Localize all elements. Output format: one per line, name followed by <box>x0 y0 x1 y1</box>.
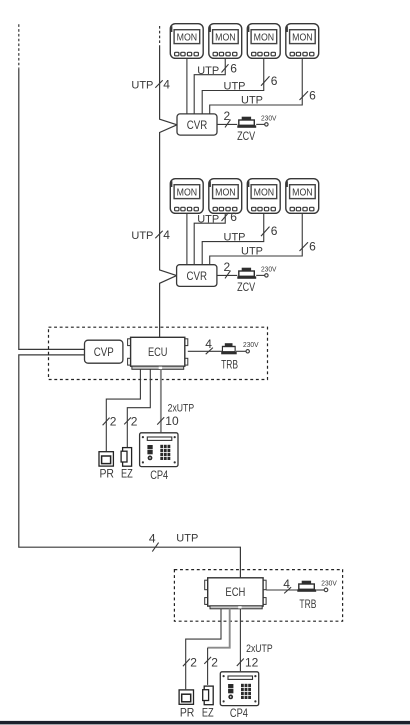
label 6 run3 s1 with slash <box>300 89 317 103</box>
label PR2 <box>180 705 195 719</box>
label 230V ECU <box>243 340 259 349</box>
svg-text:4: 4 <box>205 337 212 351</box>
svg-text:TRB: TRB <box>221 357 238 371</box>
svg-text:UTP: UTP <box>131 80 153 92</box>
label EZ1 <box>121 467 133 481</box>
label UTP run1 s1 <box>197 65 219 77</box>
label 6 run3 s2 with slash <box>300 240 317 254</box>
label UTP 4 riser s2 with slash <box>131 228 170 242</box>
svg-text:CVR: CVR <box>187 118 208 132</box>
svg-text:CP4: CP4 <box>150 468 168 482</box>
wire: ECH to EZ2 with label 2 and slash <box>204 609 229 685</box>
svg-text:2: 2 <box>224 109 231 123</box>
svg-text:EZ: EZ <box>202 705 214 719</box>
wire: MON6 to CVR U2 <box>194 214 225 265</box>
CVP U3 <box>85 340 123 363</box>
svg-text:4: 4 <box>163 77 170 91</box>
wire: ECU to CP4 panel (2xUTP) with labels <box>157 369 194 432</box>
door lock EZ2 <box>203 686 214 705</box>
entry panel CP4 #1 <box>140 433 178 467</box>
wire: ECH to TRB2 with label 4 and slash <box>266 577 300 593</box>
wire: ECH to CP4 panel (2xUTP) with labels <box>237 609 273 671</box>
svg-text:UTP: UTP <box>197 213 219 225</box>
svg-text:PR: PR <box>180 705 195 719</box>
svg-text:10: 10 <box>165 414 179 428</box>
wire: ECU to TRB with label 4 and slash <box>188 337 223 354</box>
svg-text:2: 2 <box>211 656 218 670</box>
monitor MON7 <box>247 179 280 214</box>
svg-text:12: 12 <box>245 656 259 670</box>
page footer bar <box>0 721 410 725</box>
svg-text:TRB: TRB <box>299 597 316 611</box>
label TRB1 <box>221 357 238 371</box>
label PR1 <box>99 467 114 481</box>
svg-text:230V: 230V <box>321 578 337 587</box>
transformer TRB1 <box>221 344 236 355</box>
door lock EZ1 <box>121 448 132 467</box>
label UTP 4 riser s1 with slash <box>131 77 170 91</box>
svg-text:UTP: UTP <box>241 246 263 258</box>
svg-text:6: 6 <box>271 74 278 88</box>
svg-text:4: 4 <box>283 577 290 591</box>
label CP4 #2 <box>230 706 248 720</box>
label UTP run2 s2 <box>224 232 246 244</box>
wire: ZCV2 to 230V terminal <box>256 274 268 277</box>
pushbutton PR2 <box>179 690 193 704</box>
dashed enclosure: secondary entrance (ECH group) <box>174 570 342 622</box>
label 230V ECH <box>321 578 337 587</box>
dashed enclosure: entrance unit (ECU group) <box>49 327 268 379</box>
wire: riser from CVR U2 down to ECU <box>160 276 177 338</box>
wire: CVR U2 to ZCV with label 2 <box>217 260 237 278</box>
transformer ZCV2 <box>237 268 256 279</box>
svg-text:2: 2 <box>224 260 231 274</box>
monitor MON5 <box>170 179 203 214</box>
svg-text:2: 2 <box>131 414 138 428</box>
wire: MON1 to CVR U1 <box>186 59 188 114</box>
label 4 UTP on riser to ECH with slash <box>149 532 198 552</box>
svg-text:ECH: ECH <box>225 585 245 599</box>
svg-text:ZCV: ZCV <box>237 280 255 294</box>
svg-text:CP4: CP4 <box>230 706 248 720</box>
label 6 run1 s1 with slash <box>222 62 238 76</box>
wire: MON7 to CVR U2 <box>202 214 264 265</box>
monitor MON6 <box>209 179 242 214</box>
pushbutton PR1 <box>99 452 113 466</box>
wire: main riser down to CVP <box>19 69 85 350</box>
label 230V s1 <box>261 114 277 123</box>
wire: MON2 to CVR U1 <box>194 59 225 114</box>
svg-text:6: 6 <box>230 62 237 76</box>
wire: riser from CVP down to ECH branch <box>19 355 241 578</box>
svg-text:6: 6 <box>309 89 316 103</box>
monitor MON8 <box>286 179 319 214</box>
svg-text:UTP: UTP <box>224 81 246 93</box>
svg-text:EZ: EZ <box>121 467 133 481</box>
label UTP run3 s1 <box>241 95 263 107</box>
label 6 run2 s1 with slash <box>261 74 278 88</box>
wire: MON5 to CVR U2 <box>186 214 188 265</box>
svg-text:2xUTP: 2xUTP <box>168 402 195 414</box>
wire: TRB1 to 230V terminal <box>236 350 249 353</box>
monitor MON4 <box>286 24 319 59</box>
svg-text:UTP: UTP <box>241 95 263 107</box>
svg-text:6: 6 <box>271 224 278 238</box>
wire: CVR U1 to ZCV with label 2 <box>217 109 237 127</box>
wire: CVR riser continuation (dashed, upward) <box>159 26 161 45</box>
label 6 run1 s2 with slash <box>222 210 238 224</box>
label 6 run2 s2 with slash <box>261 224 278 238</box>
svg-text:UTP: UTP <box>197 65 219 77</box>
ECH U5 <box>205 578 266 609</box>
monitor MON1 <box>170 24 203 59</box>
svg-text:ECU: ECU <box>148 345 168 359</box>
svg-text:UTP: UTP <box>224 232 246 244</box>
transformer ZCV1 <box>237 117 256 128</box>
wire: ECU to EZ1 with label 2 and slash <box>124 369 150 447</box>
svg-text:PR: PR <box>99 467 114 481</box>
monitor MON2 <box>209 24 242 59</box>
svg-text:2xUTP: 2xUTP <box>246 643 273 655</box>
wire: ECU to PR1 with label 2 and slash <box>103 369 141 451</box>
label ZCV2 <box>237 280 255 294</box>
label EZ2 <box>202 705 214 719</box>
svg-text:CVP: CVP <box>94 345 114 359</box>
wire: MON4 to CVR U1 <box>210 59 303 114</box>
svg-text:6: 6 <box>309 240 316 254</box>
svg-text:4: 4 <box>163 228 170 242</box>
transformer TRB2 <box>297 581 316 592</box>
svg-text:UTP: UTP <box>176 533 198 545</box>
wire: CVR riser segment into CVR U1 <box>160 45 177 125</box>
label ZCV1 <box>237 129 255 143</box>
label CP4 #1 <box>150 468 168 482</box>
svg-text:6: 6 <box>230 210 237 224</box>
label 230V s2 <box>261 265 277 274</box>
monitor MON3 <box>247 24 280 59</box>
ECU U4 <box>128 337 188 369</box>
wire: riser from CVR U1 down to CVR U2 <box>160 125 177 276</box>
entry panel CP4 #2 <box>220 672 258 706</box>
wire: main riser continuation (dashed, to upper floors) <box>18 24 20 68</box>
wire: TRB2 to 230V terminal <box>316 588 328 592</box>
CVR U1 <box>177 114 217 135</box>
wire: ECH to PR2 with label 2 and slash <box>183 609 221 690</box>
label UTP run2 s1 <box>224 81 246 93</box>
svg-text:UTP: UTP <box>131 230 153 242</box>
svg-text:4: 4 <box>149 532 156 546</box>
wire: MON3 to CVR U1 <box>202 59 264 114</box>
svg-text:230V: 230V <box>261 265 277 274</box>
wire: ZCV1 to 230V terminal <box>256 123 268 126</box>
svg-text:230V: 230V <box>243 340 259 349</box>
svg-text:230V: 230V <box>261 114 277 123</box>
label UTP run1 s2 <box>197 213 219 225</box>
svg-text:ZCV: ZCV <box>237 129 255 143</box>
CVR U2 <box>177 265 217 287</box>
svg-text:CVR: CVR <box>187 269 208 283</box>
label TRB2 <box>299 597 316 611</box>
label UTP run3 s2 <box>241 246 263 258</box>
wire: MON8 to CVR U2 <box>210 214 303 265</box>
svg-text:2: 2 <box>190 656 197 670</box>
svg-text:2: 2 <box>110 414 117 428</box>
